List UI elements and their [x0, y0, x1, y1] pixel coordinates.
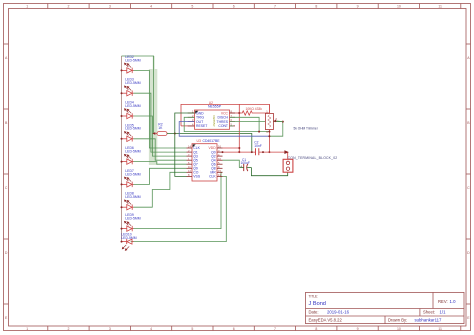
svg-text:6: 6: [233, 327, 235, 331]
IC U3 CD4017BE: [187, 139, 223, 181]
svg-text:10nF: 10nF: [254, 144, 262, 148]
svg-text:REV:: REV:: [438, 299, 448, 304]
svg-text:EasyEDA V5.8.22: EasyEDA V5.8.22: [309, 317, 343, 322]
LED2: [121, 55, 141, 73]
connector CN terminal block: [283, 156, 337, 172]
svg-text:CLK: CLK: [209, 175, 216, 179]
svg-text:Sheet:: Sheet:: [423, 310, 435, 315]
wire U3 right pin loop to LED9: [134, 172, 223, 228]
LED3: [121, 78, 141, 96]
node arrow into terminal: [284, 150, 289, 154]
svg-text:CON_TERMINAL_BLOCK_02: CON_TERMINAL_BLOCK_02: [288, 156, 338, 160]
svg-text:3: 3: [109, 5, 111, 9]
LED10: [121, 232, 137, 250]
svg-text:CD4017BE: CD4017BE: [203, 139, 221, 143]
resistor R2: [152, 123, 167, 136]
svg-text:LED-5MM: LED-5MM: [125, 127, 140, 131]
svg-text:10: 10: [397, 327, 401, 331]
wire LED5 cathode to U3 pin: [134, 139, 187, 160]
LED6: [121, 146, 141, 164]
LED5: [121, 123, 141, 141]
svg-text:10KΩ 433k: 10KΩ 433k: [246, 107, 263, 111]
svg-text:4: 4: [150, 327, 152, 331]
svg-text:9: 9: [357, 327, 359, 331]
svg-text:2: 2: [68, 5, 70, 9]
wire LED6 cathode to U3 pin: [134, 162, 187, 165]
node DISCH junction: [258, 131, 260, 133]
svg-text:1K: 1K: [158, 126, 163, 130]
wire U3 VDD: [223, 147, 240, 149]
wire U3 right pin loop to LED10: [131, 176, 227, 241]
wire 555 CONT: [230, 125, 234, 127]
svg-text:LED-5MM: LED-5MM: [125, 150, 140, 154]
wire LED2 cathode to U3 pin: [134, 70, 187, 148]
svg-text:8: 8: [315, 327, 317, 331]
svg-text:RESET: RESET: [196, 124, 207, 128]
wire bus top loop to R2: [122, 56, 154, 134]
svg-text:5: 5: [191, 327, 193, 331]
wire V+ rail: [181, 104, 269, 126]
svg-text:9: 9: [357, 5, 359, 9]
svg-text:1/1: 1/1: [440, 310, 447, 315]
node VCC junction: [238, 112, 240, 153]
svg-text:LED-5MM: LED-5MM: [125, 81, 140, 85]
svg-text:10: 10: [397, 5, 401, 9]
LED9: [121, 213, 141, 231]
svg-text:TITLE:: TITLE:: [309, 294, 319, 298]
LED8: [121, 192, 141, 210]
wire 555 GND to U3 VSS: [175, 113, 195, 176]
wire U3 pin to LED7: [134, 168, 187, 184]
svg-text:1: 1: [26, 327, 28, 331]
wire R2 to GND net: [167, 133, 252, 153]
wire LED3 cathode to U3 pin: [134, 93, 187, 152]
svg-text:11: 11: [438, 327, 442, 331]
svg-text:LED-5MM: LED-5MM: [125, 172, 140, 176]
svg-text:1.0: 1.0: [450, 299, 457, 304]
svg-text:Drawn By:: Drawn By:: [388, 317, 407, 322]
title block: [306, 292, 465, 323]
LED4: [121, 101, 141, 119]
capacitor C1: [239, 158, 251, 171]
svg-text:LED-5MM: LED-5MM: [125, 58, 140, 62]
svg-text:7: 7: [274, 327, 276, 331]
wire 555 THRES to trimmer wiper: [230, 122, 283, 137]
trimmer R3 5k: [265, 104, 318, 134]
svg-text:LED-5MM: LED-5MM: [125, 217, 140, 221]
svg-text:J Bond: J Bond: [309, 301, 326, 307]
LED7: [121, 169, 141, 187]
svg-text:2019-01-16: 2019-01-16: [327, 310, 350, 315]
wire U3 pin to LED8: [134, 172, 187, 207]
wire C1 left to U3: [223, 160, 240, 167]
wire trimmer bottom: [268, 130, 270, 153]
wire 555 OUT (blue): [179, 122, 269, 137]
node wiper junction: [282, 121, 284, 123]
wire VCC to R1 junction: [230, 104, 240, 152]
wire band underlay: [149, 69, 157, 165]
svg-text:1: 1: [26, 5, 28, 9]
svg-text:subhankar117: subhankar117: [415, 317, 443, 322]
svg-text:U3: U3: [197, 139, 201, 143]
svg-text:6: 6: [233, 5, 235, 9]
wire LED anode bus: [121, 56, 123, 242]
svg-text:3: 3: [109, 327, 111, 331]
wire 555 DISCH: [230, 117, 260, 131]
wire C1 right to terminal bottom: [251, 168, 287, 176]
svg-text:5: 5: [191, 5, 193, 9]
timer IC U2 NE555P: [188, 101, 235, 129]
svg-text:VSS: VSS: [193, 175, 201, 179]
wire red net to terminal block: [223, 152, 288, 159]
svg-text:LED-5MM: LED-5MM: [125, 104, 140, 108]
svg-text:5k OHM Trimmer: 5k OHM Trimmer: [294, 126, 319, 130]
wire LED4 cathode to U3 pin: [134, 116, 187, 156]
wire 555 TRIG loop: [184, 117, 269, 131]
svg-text:2: 2: [68, 327, 70, 331]
svg-text:4: 4: [150, 5, 152, 9]
svg-text:Date:: Date:: [309, 310, 319, 315]
svg-text:8: 8: [315, 5, 317, 9]
resistor R1: [239, 107, 269, 115]
svg-text:7: 7: [274, 5, 276, 9]
svg-text:11: 11: [438, 5, 442, 9]
svg-text:NE555P: NE555P: [212, 115, 216, 126]
svg-text:NE555P: NE555P: [208, 105, 222, 109]
svg-text:CONT: CONT: [218, 124, 228, 128]
svg-text:LED-5MM: LED-5MM: [125, 195, 140, 199]
capacitor C2: [251, 141, 264, 156]
svg-text:LED-5MM: LED-5MM: [121, 236, 136, 240]
